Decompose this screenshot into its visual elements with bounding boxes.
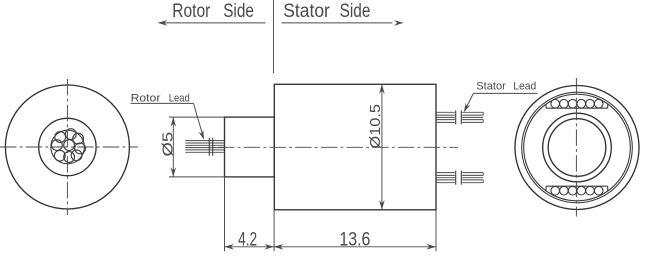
rotor lead leader arrowhead: [198, 130, 204, 140]
rotor end view vertical centerline: [66, 79, 68, 215]
svg-text:Stator: Stator: [476, 81, 506, 93]
label Stator Side: [283, 1, 370, 22]
top terminal wire 4: [577, 99, 586, 108]
svg-text:Rotor: Rotor: [172, 1, 211, 22]
svg-text:Rotor: Rotor: [131, 93, 161, 105]
svg-text:Ø5: Ø5: [159, 132, 176, 157]
stator lead top wire lines segment A: [436, 112, 455, 122]
stator end view inner ring circle 1: [522, 92, 633, 203]
stator side direction arrow: [282, 20, 404, 26]
dimension phi5 arrowhead up: [171, 117, 177, 127]
top terminal wire 3: [568, 99, 577, 108]
svg-text:Lead: Lead: [513, 81, 536, 93]
bottom terminal wire 5: [586, 186, 595, 195]
bottom terminal wire 1: [551, 186, 560, 195]
rotor wire 1: [55, 132, 66, 143]
top terminal wire 2: [560, 99, 569, 108]
rotor wire 5 (center): [64, 140, 75, 151]
stator lead bottom wire lines segment A: [436, 173, 455, 183]
rotor lead wire lines: [185, 141, 224, 153]
svg-text:Ø10.5: Ø10.5: [367, 104, 384, 149]
top terminal wire 1: [551, 99, 560, 108]
rotor wire 9: [71, 150, 82, 161]
svg-text:13.6: 13.6: [339, 228, 370, 250]
rotor end view horizontal centerline: [0, 146, 138, 148]
stator end view vertical centerline: [575, 78, 577, 217]
svg-text:Side: Side: [340, 1, 371, 22]
dimension 13.6 extension line right: [435, 210, 437, 252]
dimension 4.2 arrowhead left: [224, 244, 234, 250]
rotor lead binding tick 1: [208, 138, 210, 156]
rotor wire 7: [54, 150, 65, 161]
stator lead top wire lines segment B: [462, 112, 483, 122]
stator end view outer circle: [515, 86, 639, 210]
divider line between rotor and stator side: [273, 0, 275, 73]
dimension phi5 line: [172, 117, 174, 177]
stator lead leader arrowhead: [464, 103, 471, 113]
svg-text:Stator: Stator: [283, 1, 330, 22]
side view centerline: [218, 146, 458, 148]
stator lead bottom wire end caps: [482, 173, 484, 183]
svg-text:Side: Side: [223, 1, 254, 22]
rotor lead leader line: [131, 102, 194, 104]
dimension phi5 extension line bottom: [169, 176, 225, 178]
dimension phi10.5 arrowhead up: [379, 84, 385, 94]
top terminal left stub: [545, 104, 547, 108]
rotor lead binding tick 2: [212, 138, 214, 156]
dimension 13.6 arrowhead right: [427, 244, 437, 250]
top terminal wire 6: [594, 99, 603, 108]
dimension phi5 extension line top: [169, 116, 225, 118]
stator end view bore inner circle: [548, 119, 606, 177]
top terminal right stub: [607, 104, 609, 108]
dimension extension line middle: [273, 210, 275, 252]
stator lead bottom wire lines segment B: [462, 173, 483, 183]
rotor end view rotor shaft circle: [39, 118, 96, 175]
stator lead bottom binding tick 1: [455, 171, 457, 185]
stator end view inner ring circle 2: [524, 94, 631, 201]
dimension 4.2 arrowhead right: [264, 244, 274, 250]
rotor wire 3: [73, 133, 84, 144]
rotor wire 8: [64, 152, 75, 163]
svg-text:Lead: Lead: [169, 93, 190, 105]
dimension 4.2 line: [224, 246, 274, 248]
top terminal wire 5: [586, 99, 595, 108]
stator end view top terminal chord: [546, 107, 608, 109]
rotor wire 6: [75, 143, 86, 154]
stator lead leader line: [473, 92, 537, 94]
dimension 4.2 extension line left: [224, 177, 226, 251]
rotor wire 2: [65, 129, 76, 140]
stator lead bottom binding tick 2: [460, 171, 462, 185]
stator end view bottom terminal chord: [546, 185, 608, 187]
rotor end view wire bundle circle: [51, 130, 85, 164]
stator lead top binding tick 1: [455, 110, 457, 124]
stator lead top binding tick 2: [460, 110, 462, 124]
rotor end view outer circle: [5, 85, 129, 209]
bottom terminal wire 4: [577, 186, 586, 195]
label Rotor Side: [172, 1, 254, 22]
svg-text:4.2: 4.2: [238, 228, 257, 250]
bottom terminal wire 2: [560, 186, 569, 195]
rotor side direction arrow: [158, 20, 266, 26]
dimension phi5 arrowhead down: [171, 167, 177, 177]
dimension phi10.5 arrowhead down: [379, 200, 385, 210]
dimension 13.6 line: [274, 246, 436, 248]
bottom terminal wire 6: [594, 186, 603, 195]
dimension phi10.5 line: [381, 84, 383, 209]
side view stator body rectangle: [274, 84, 436, 210]
rotor wire 4: [52, 140, 63, 151]
side view rotor body rectangle: [225, 117, 275, 177]
bottom terminal left stub: [545, 186, 547, 190]
dimension 13.6 arrowhead left: [274, 244, 284, 250]
bottom terminal right stub: [607, 186, 609, 190]
bottom terminal wire 3: [568, 186, 577, 195]
stator end view bore outer circle: [543, 113, 612, 182]
stator lead top wire end caps: [482, 112, 484, 122]
